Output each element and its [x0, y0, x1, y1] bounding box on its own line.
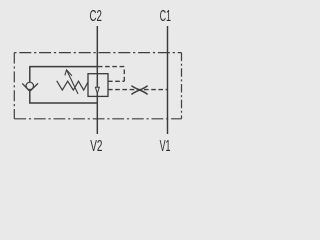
svg-text:C1: C1	[160, 8, 172, 25]
svg-text:C2: C2	[90, 8, 102, 25]
svg-text:V1: V1	[160, 138, 171, 155]
svg-text:V2: V2	[90, 138, 102, 155]
